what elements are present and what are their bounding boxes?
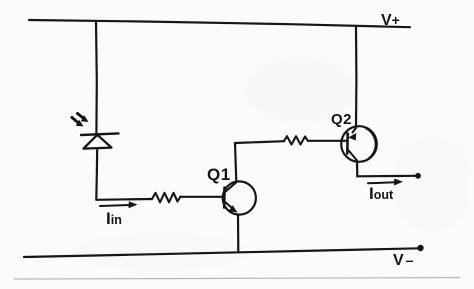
photodiode D1 (cathode bar and triangle)	[81, 133, 119, 148]
Iin current arrow	[100, 201, 138, 208]
wire resistor R1 to Q1 base	[181, 196, 225, 198]
photodiode D1 light arrow 1	[72, 118, 84, 127]
transistor Q1 (NPN)	[223, 181, 256, 214]
photodiode D1 light arrow 2	[78, 114, 89, 123]
wire photodiode anode down to corner	[95, 149, 98, 200]
Iout current arrow	[368, 179, 403, 186]
svg-text:V–: V–	[393, 252, 414, 269]
transistor Q2 (PNP)	[341, 126, 377, 162]
wire Q1 collector up to corner	[235, 143, 236, 182]
svg-text:Q1: Q1	[207, 165, 231, 184]
svg-text:V+: V+	[381, 12, 400, 29]
wire left vertical from V+ rail to photodiode	[95, 22, 98, 137]
wire resistor R2 to Q2 base	[308, 140, 347, 142]
node V- terminal dot	[417, 245, 423, 251]
wire Q1 emitter to V- rail	[237, 215, 240, 252]
wire V+ rail down to Q2 emitter	[355, 27, 358, 129]
resistor R1	[152, 193, 181, 203]
resistor R2	[284, 136, 308, 144]
node Iout terminal dot	[415, 173, 421, 179]
wire corner to resistor R2	[235, 141, 284, 143]
wire V+ top rail	[29, 20, 410, 27]
wire corner to Iout terminal	[357, 175, 416, 178]
scan artifact faint line bottom	[14, 278, 460, 280]
wire Q2 collector down to corner	[356, 162, 358, 177]
wire horizontal input to resistor R1	[96, 198, 152, 201]
svg-text:Q2: Q2	[331, 111, 352, 128]
wire V- bottom rail	[24, 248, 420, 257]
